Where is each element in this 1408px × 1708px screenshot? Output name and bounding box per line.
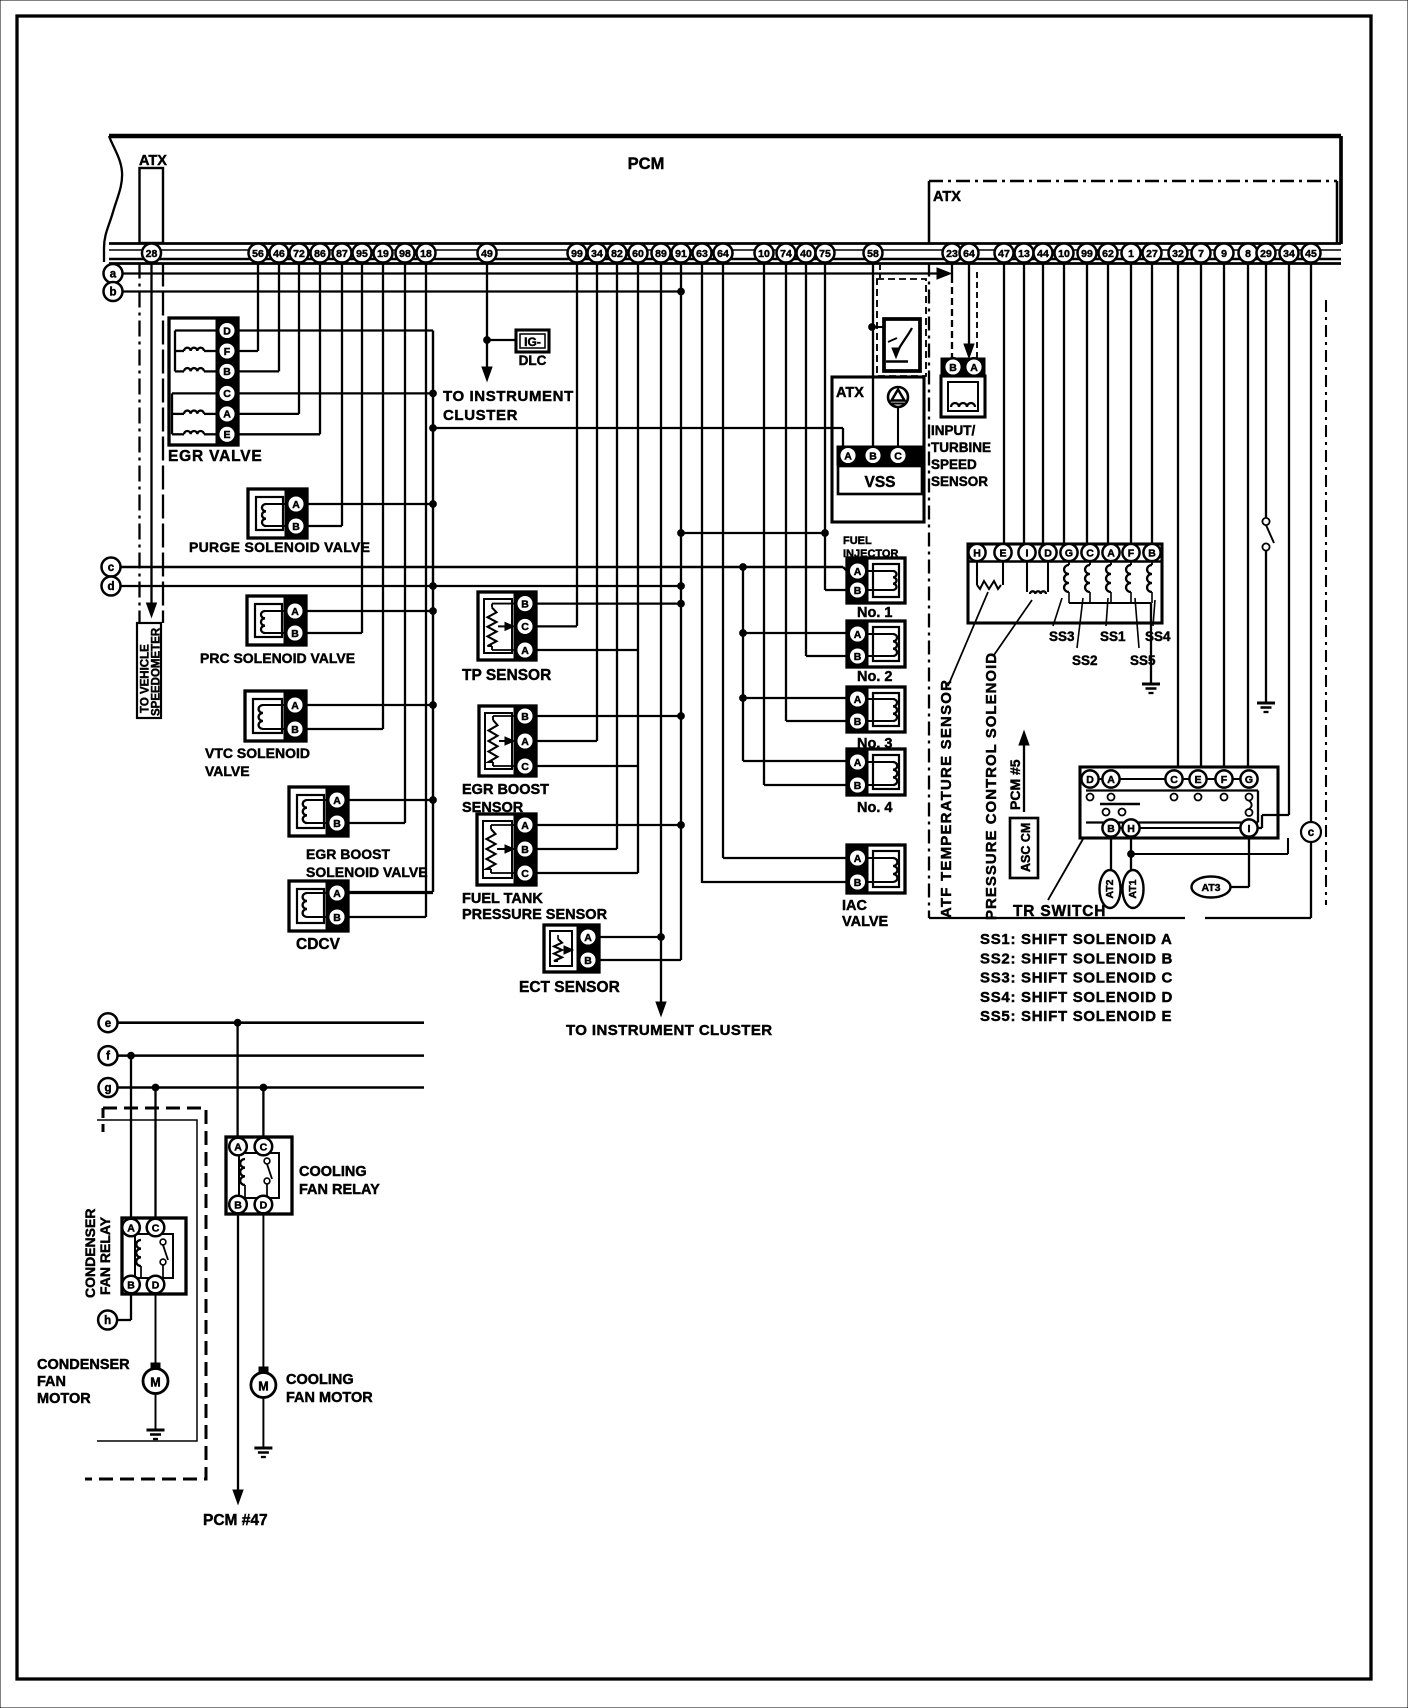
svg-text:9: 9 xyxy=(1221,248,1227,260)
svg-text:A: A xyxy=(521,736,529,748)
svg-text:DLC: DLC xyxy=(519,353,547,368)
svg-text:46: 46 xyxy=(273,248,285,260)
svg-text:A: A xyxy=(291,606,299,618)
svg-text:40: 40 xyxy=(800,248,812,260)
svg-text:B: B xyxy=(291,724,299,736)
svg-text:SS4: SS4 xyxy=(1145,629,1171,644)
svg-text:23: 23 xyxy=(946,248,958,260)
svg-text:EGR BOOST: EGR BOOST xyxy=(462,782,549,798)
svg-text:ATF TEMPERATURE SENSOR: ATF TEMPERATURE SENSOR xyxy=(938,679,955,918)
svg-text:No. 2: No. 2 xyxy=(857,669,892,685)
svg-text:d: d xyxy=(107,581,114,593)
svg-text:M: M xyxy=(258,1380,268,1394)
svg-text:29: 29 xyxy=(1260,248,1272,260)
svg-text:A: A xyxy=(854,566,862,578)
svg-text:91: 91 xyxy=(675,248,687,260)
svg-text:ATX: ATX xyxy=(933,189,961,205)
svg-text:B: B xyxy=(854,780,862,792)
svg-text:D: D xyxy=(1086,774,1094,786)
svg-text:B: B xyxy=(127,1279,135,1291)
svg-text:A: A xyxy=(333,888,341,900)
svg-text:SS5: SHIFT SOLENOID E: SS5: SHIFT SOLENOID E xyxy=(980,1008,1172,1025)
svg-text:63: 63 xyxy=(696,248,708,260)
svg-text:G: G xyxy=(1065,547,1073,559)
svg-text:F: F xyxy=(224,346,231,358)
svg-text:M: M xyxy=(150,1376,160,1390)
svg-text:B: B xyxy=(292,521,300,533)
svg-text:A: A xyxy=(854,853,862,865)
svg-text:A: A xyxy=(854,694,862,706)
svg-text:FUEL TANK: FUEL TANK xyxy=(462,891,543,907)
svg-text:IG-: IG- xyxy=(524,335,541,349)
svg-text:7: 7 xyxy=(1198,248,1204,260)
svg-text:SS2: SHIFT SOLENOID B: SS2: SHIFT SOLENOID B xyxy=(980,950,1173,967)
svg-text:98: 98 xyxy=(399,248,411,260)
svg-text:B: B xyxy=(869,450,877,462)
svg-text:CLUSTER: CLUSTER xyxy=(443,407,518,424)
svg-text:8: 8 xyxy=(1245,248,1251,260)
svg-text:SOLENOID VALVE: SOLENOID VALVE xyxy=(306,864,428,880)
svg-text:PRESSURE SENSOR: PRESSURE SENSOR xyxy=(462,907,608,923)
svg-text:B: B xyxy=(584,955,592,967)
svg-text:1: 1 xyxy=(1128,248,1134,260)
svg-text:SS5: SS5 xyxy=(1130,653,1156,668)
svg-text:G: G xyxy=(1245,774,1253,786)
svg-text:ATX: ATX xyxy=(139,153,167,169)
svg-text:47: 47 xyxy=(998,248,1010,260)
svg-text:B: B xyxy=(521,711,529,723)
svg-text:F: F xyxy=(1128,547,1135,559)
svg-text:PURGE SOLENOID VALVE: PURGE SOLENOID VALVE xyxy=(189,539,370,555)
svg-text:56: 56 xyxy=(252,248,264,260)
svg-text:PCM: PCM xyxy=(628,155,665,173)
svg-text:D: D xyxy=(260,1199,268,1211)
svg-text:C: C xyxy=(521,868,529,880)
svg-text:B: B xyxy=(854,877,862,889)
svg-text:SS1: SHIFT SOLENOID A: SS1: SHIFT SOLENOID A xyxy=(980,931,1173,948)
svg-text:C: C xyxy=(223,388,231,400)
svg-text:D: D xyxy=(223,325,231,337)
svg-text:c: c xyxy=(108,562,115,574)
svg-text:VALVE: VALVE xyxy=(842,914,889,930)
svg-text:h: h xyxy=(104,1315,111,1327)
svg-text:B: B xyxy=(854,716,862,728)
svg-text:C: C xyxy=(260,1141,268,1153)
svg-text:A: A xyxy=(1107,547,1115,559)
svg-text:E: E xyxy=(1194,774,1201,786)
svg-text:CDCV: CDCV xyxy=(296,936,341,953)
svg-text:A: A xyxy=(291,700,299,712)
svg-text:FUEL: FUEL xyxy=(843,535,872,547)
svg-text:VTC SOLENOID: VTC SOLENOID xyxy=(205,745,310,761)
svg-text:TR SWITCH: TR SWITCH xyxy=(1013,903,1106,920)
svg-text:A: A xyxy=(333,795,341,807)
svg-text:VALVE: VALVE xyxy=(205,763,250,779)
svg-text:SS2: SS2 xyxy=(1072,653,1098,668)
svg-text:PRC SOLENOID VALVE: PRC SOLENOID VALVE xyxy=(200,650,355,666)
svg-text:72: 72 xyxy=(293,248,305,260)
svg-text:FAN RELAY: FAN RELAY xyxy=(97,1216,113,1295)
svg-text:ECT SENSOR: ECT SENSOR xyxy=(519,979,620,996)
svg-text:SENSOR: SENSOR xyxy=(931,474,988,489)
svg-text:a: a xyxy=(110,269,117,281)
svg-text:A: A xyxy=(292,499,300,511)
svg-text:EGR VALVE: EGR VALVE xyxy=(168,448,262,465)
svg-text:CONDENSER: CONDENSER xyxy=(82,1209,98,1298)
svg-text:C: C xyxy=(1086,547,1094,559)
svg-text:34: 34 xyxy=(1283,248,1295,260)
svg-text:B: B xyxy=(854,651,862,663)
svg-text:E: E xyxy=(999,547,1006,559)
svg-text:62: 62 xyxy=(1102,248,1114,260)
svg-text:A: A xyxy=(844,450,852,462)
svg-text:A: A xyxy=(854,629,862,641)
svg-text:45: 45 xyxy=(1305,248,1317,260)
svg-text:MOTOR: MOTOR xyxy=(37,1391,91,1407)
svg-text:ATX: ATX xyxy=(836,385,864,401)
svg-text:95: 95 xyxy=(356,248,368,260)
svg-text:C: C xyxy=(152,1222,160,1234)
svg-text:SS3: SS3 xyxy=(1049,629,1075,644)
svg-text:B: B xyxy=(333,912,341,924)
svg-text:AT2: AT2 xyxy=(1104,879,1116,898)
svg-text:C: C xyxy=(1170,774,1178,786)
svg-text:87: 87 xyxy=(336,248,348,260)
svg-text:B: B xyxy=(234,1199,242,1211)
svg-text:FAN MOTOR: FAN MOTOR xyxy=(286,1390,373,1406)
svg-text:COOLING: COOLING xyxy=(286,1372,354,1388)
svg-text:64: 64 xyxy=(963,248,975,260)
svg-text:C: C xyxy=(894,450,902,462)
svg-text:A: A xyxy=(223,409,231,421)
svg-text:27: 27 xyxy=(1146,248,1158,260)
svg-text:A: A xyxy=(521,645,529,657)
svg-text:B: B xyxy=(854,585,862,597)
svg-text:49: 49 xyxy=(481,248,493,260)
svg-text:PCM #47: PCM #47 xyxy=(203,1512,268,1529)
svg-text:E: E xyxy=(223,429,230,441)
svg-text:AT1: AT1 xyxy=(1127,879,1139,898)
svg-text:A: A xyxy=(854,757,862,769)
svg-text:g: g xyxy=(104,1083,111,1095)
svg-text:58: 58 xyxy=(867,248,879,260)
svg-text:13: 13 xyxy=(1018,248,1030,260)
svg-text:SPEEDOMETER: SPEEDOMETER xyxy=(151,627,163,716)
svg-text:I: I xyxy=(1026,547,1029,559)
svg-text:B: B xyxy=(521,598,529,610)
svg-text:e: e xyxy=(105,1018,111,1030)
svg-text:A: A xyxy=(1107,774,1115,786)
svg-text:INJECTOR: INJECTOR xyxy=(843,548,898,560)
svg-text:75: 75 xyxy=(819,248,831,260)
svg-text:c: c xyxy=(1308,827,1315,839)
svg-text:18: 18 xyxy=(420,248,432,260)
svg-text:TURBINE: TURBINE xyxy=(931,440,991,455)
svg-text:89: 89 xyxy=(655,248,667,260)
svg-text:PRESSURE CONTROL SOLENOID: PRESSURE CONTROL SOLENOID xyxy=(983,652,1000,920)
svg-text:H: H xyxy=(1127,823,1135,835)
svg-text:SS4: SHIFT SOLENOID D: SS4: SHIFT SOLENOID D xyxy=(980,989,1173,1006)
svg-text:F: F xyxy=(1221,774,1228,786)
svg-text:44: 44 xyxy=(1037,248,1049,260)
svg-text:VSS: VSS xyxy=(864,474,895,491)
svg-text:ASC CM: ASC CM xyxy=(1019,823,1033,872)
svg-text:B: B xyxy=(1107,823,1115,835)
svg-text:82: 82 xyxy=(611,248,623,260)
svg-text:f: f xyxy=(106,1051,110,1063)
svg-text:D: D xyxy=(1044,547,1052,559)
svg-text:TO INSTRUMENT CLUSTER: TO INSTRUMENT CLUSTER xyxy=(566,1022,772,1039)
svg-text:TP SENSOR: TP SENSOR xyxy=(462,667,551,684)
svg-text:IAC: IAC xyxy=(842,898,868,914)
svg-text:B: B xyxy=(949,362,957,374)
svg-text:PCM #5: PCM #5 xyxy=(1007,759,1023,810)
svg-text:SPEED: SPEED xyxy=(931,457,977,472)
svg-text:86: 86 xyxy=(314,248,326,260)
svg-text:SS1: SS1 xyxy=(1100,629,1126,644)
svg-text:H: H xyxy=(973,547,981,559)
svg-text:FAN: FAN xyxy=(37,1374,66,1390)
svg-text:SS3: SHIFT SOLENOID C: SS3: SHIFT SOLENOID C xyxy=(980,970,1173,987)
svg-text:B: B xyxy=(333,818,341,830)
svg-text:B: B xyxy=(1148,547,1156,559)
svg-text:60: 60 xyxy=(632,248,644,260)
svg-text:I: I xyxy=(1248,823,1251,835)
svg-text:A: A xyxy=(234,1141,242,1153)
svg-text:34: 34 xyxy=(591,248,603,260)
svg-text:B: B xyxy=(223,366,231,378)
svg-text:10: 10 xyxy=(1058,248,1070,260)
svg-text:AT3: AT3 xyxy=(1201,882,1220,894)
svg-text:19: 19 xyxy=(377,248,389,260)
svg-text:A: A xyxy=(521,820,529,832)
svg-text:b: b xyxy=(109,287,116,299)
svg-text:32: 32 xyxy=(1172,248,1184,260)
svg-text:No. 1: No. 1 xyxy=(857,605,892,621)
svg-text:C: C xyxy=(521,621,529,633)
svg-text:64: 64 xyxy=(717,248,729,260)
svg-text:INPUT/: INPUT/ xyxy=(931,423,976,438)
svg-text:No. 4: No. 4 xyxy=(857,800,892,816)
svg-text:B: B xyxy=(521,844,529,856)
svg-text:A: A xyxy=(970,362,978,374)
svg-text:74: 74 xyxy=(780,248,792,260)
svg-text:COOLING: COOLING xyxy=(299,1164,367,1180)
svg-text:TO INSTRUMENT: TO INSTRUMENT xyxy=(443,388,574,405)
svg-text:99: 99 xyxy=(1081,248,1093,260)
svg-text:FAN RELAY: FAN RELAY xyxy=(299,1182,380,1198)
svg-text:A: A xyxy=(127,1222,135,1234)
svg-text:D: D xyxy=(152,1279,160,1291)
svg-text:10: 10 xyxy=(758,248,770,260)
svg-text:B: B xyxy=(291,628,299,640)
svg-text:28: 28 xyxy=(146,248,158,260)
svg-text:A: A xyxy=(584,932,592,944)
svg-text:C: C xyxy=(521,761,529,773)
svg-text:CONDENSER: CONDENSER xyxy=(37,1357,130,1373)
svg-text:99: 99 xyxy=(571,248,583,260)
svg-text:EGR BOOST: EGR BOOST xyxy=(306,846,390,862)
